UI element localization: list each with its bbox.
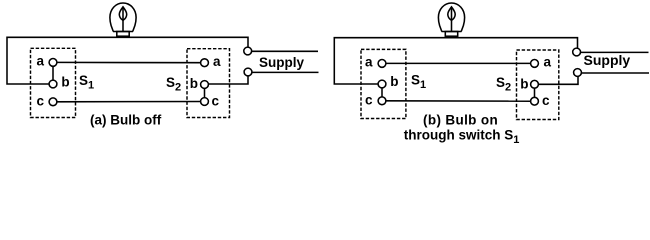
svg-text:Supply: Supply (259, 55, 304, 70)
svg-text:c: c (212, 94, 220, 109)
svg-text:a: a (37, 54, 45, 69)
svg-text:a: a (365, 55, 373, 70)
svg-text:c: c (542, 93, 550, 108)
svg-text:(b) Bulb on: (b) Bulb on (423, 113, 498, 128)
svg-text:a: a (544, 55, 552, 70)
svg-text:b: b (190, 76, 198, 91)
svg-text:c: c (365, 93, 373, 108)
svg-text:(a) Bulb off: (a) Bulb off (90, 112, 162, 127)
svg-text:b: b (61, 74, 69, 89)
svg-text:b: b (520, 76, 528, 91)
svg-text:a: a (213, 54, 221, 69)
svg-text:b: b (390, 74, 398, 89)
svg-text:Supply: Supply (584, 52, 631, 68)
svg-text:c: c (37, 94, 45, 109)
